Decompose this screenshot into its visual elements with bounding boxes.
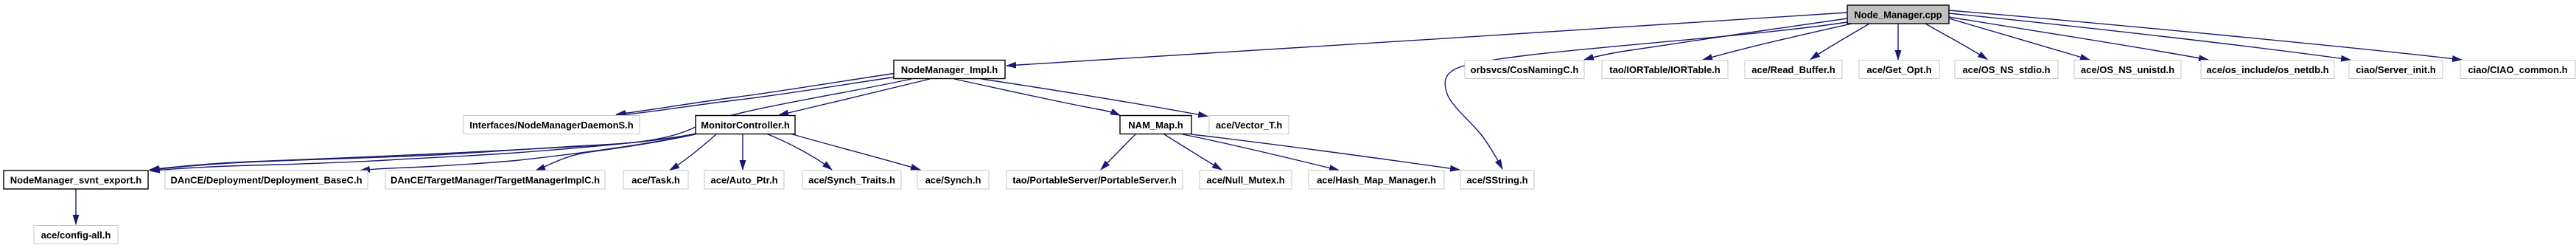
svg-text:tao/IORTable/IORTable.h: tao/IORTable/IORTable.h: [1609, 64, 1721, 75]
wire MonitorController.h to ace/Task.h: [670, 134, 717, 170]
wire NodeManager_Impl.h to MonitorController.h: [779, 79, 930, 115]
node ace/Auto_Ptr.h: [704, 170, 784, 189]
node ace/Task.h: [623, 170, 688, 189]
node ace/Null_Mutex.h: [1200, 170, 1292, 189]
svg-text:ace/OS_NS_unistd.h: ace/OS_NS_unistd.h: [2081, 64, 2174, 75]
wire NodeManager_Impl.h to Interfaces/NodeManagerDaemonS.h (lower): [617, 77, 894, 116]
svg-text:ciao/Server_init.h: ciao/Server_init.h: [2356, 64, 2435, 75]
svg-text:ace/Null_Mutex.h: ace/Null_Mutex.h: [1206, 175, 1284, 186]
wire MonitorController.h to DAnCE/TargetManager/TargetManagerImplC.h: [536, 134, 696, 170]
node tao/PortableServer/PortableServer.h: [1007, 170, 1183, 189]
node tao/IORTable/IORTable.h: [1602, 61, 1728, 79]
svg-text:NodeManager_Impl.h: NodeManager_Impl.h: [901, 64, 998, 75]
svg-text:tao/PortableServer/PortableSer: tao/PortableServer/PortableServer.h: [1012, 175, 1177, 186]
node orbsvcs/CosNamingC.h: [1465, 61, 1584, 79]
node ciao/CIAO_common.h: [2460, 61, 2575, 79]
wire Node_Manager.cpp to ace/SString.h (long curve): [1445, 22, 1847, 169]
svg-text:ace/Auto_Ptr.h: ace/Auto_Ptr.h: [710, 175, 777, 186]
svg-text:ace/Hash_Map_Manager.h: ace/Hash_Map_Manager.h: [1317, 175, 1436, 186]
wire Node_Manager.cpp to ace/os_include/os_netdb.h: [1949, 17, 2208, 60]
svg-text:NAM_Map.h: NAM_Map.h: [1128, 120, 1183, 131]
wire Node_Manager.cpp to orbsvcs/CosNamingC.h: [1584, 18, 1847, 60]
svg-text:ace/Synch_Traits.h: ace/Synch_Traits.h: [808, 175, 895, 186]
wire NAM_Map.h to ace/Null_Mutex.h: [1164, 134, 1222, 170]
wire Node_Manager.cpp to ciao/CIAO_common.h: [1949, 10, 2462, 60]
svg-text:ace/Task.h: ace/Task.h: [631, 175, 680, 186]
wire MonitorController.h to NodeManager_svnt_export.h (second): [150, 134, 696, 171]
node DAnCE/TargetManager/TargetManagerImplC.h: [385, 170, 605, 189]
node ace/Vector_T.h: [1209, 116, 1289, 134]
node ace/OS_NS_unistd.h: [2074, 61, 2181, 79]
wire Node_Manager.cpp to ciao/Server_init.h: [1949, 13, 2351, 60]
wire NodeManager_Impl.h to NAM_Map.h: [954, 79, 1120, 115]
svg-text:MonitorController.h: MonitorController.h: [701, 120, 790, 131]
wire Node_Manager.cpp to ace/OS_NS_unistd.h: [1949, 18, 2090, 60]
wire NodeManager_svnt_export.h to ace/config-all.h: [75, 189, 77, 224]
wire MonitorController.h to ace/Auto_Ptr.h: [742, 134, 743, 170]
svg-text:ace/SString.h: ace/SString.h: [1466, 175, 1527, 186]
node ace/OS_NS_stdio.h: [1955, 61, 2058, 79]
svg-text:ace/os_include/os_netdb.h: ace/os_include/os_netdb.h: [2206, 64, 2328, 75]
node NodeManager_svnt_export.h: [4, 170, 148, 189]
node ace/Read_Buffer.h: [1745, 61, 1842, 79]
wire Node_Manager.cpp to NodeManager_Impl.h: [1007, 13, 1847, 66]
node ciao/Server_init.h: [2349, 61, 2443, 79]
node Node_Manager.cpp (root): [1847, 5, 1949, 24]
node ace/Hash_Map_Manager.h: [1309, 170, 1444, 189]
svg-text:Node_Manager.cpp: Node_Manager.cpp: [1854, 10, 1942, 21]
svg-text:ciao/CIAO_common.h: ciao/CIAO_common.h: [2468, 64, 2567, 75]
node ace/os_include/os_netdb.h: [2201, 61, 2334, 79]
node ace/config-all.h: [34, 226, 118, 244]
wire Node_Manager.cpp to ace/OS_NS_stdio.h: [1925, 24, 1987, 60]
node MonitorController.h: [696, 116, 795, 134]
svg-text:ace/Vector_T.h: ace/Vector_T.h: [1216, 120, 1282, 131]
svg-text:ace/Synch.h: ace/Synch.h: [925, 175, 981, 186]
node ace/Get_Opt.h: [1859, 61, 1939, 79]
svg-text:NodeManager_svnt_export.h: NodeManager_svnt_export.h: [10, 175, 141, 186]
svg-text:ace/Get_Opt.h: ace/Get_Opt.h: [1866, 64, 1931, 75]
wire NAM_Map.h to tao/PortableServer/PortableServer.h: [1101, 134, 1135, 170]
node ace/Synch_Traits.h: [802, 170, 901, 189]
svg-text:Interfaces/NodeManagerDaemonS.: Interfaces/NodeManagerDaemonS.h: [469, 120, 634, 131]
wire MonitorController.h to DAnCE/Deployment/Deployment_BaseC.h: [360, 134, 696, 170]
wire NodeManager_Impl.h to Interfaces/NodeManagerDaemonS.h (upper): [616, 74, 894, 115]
svg-text:DAnCE/TargetManager/TargetMana: DAnCE/TargetManager/TargetManagerImplC.h: [391, 175, 600, 186]
svg-text:ace/config-all.h: ace/config-all.h: [41, 230, 111, 241]
node ace/Synch.h: [917, 170, 989, 189]
svg-text:ace/Read_Buffer.h: ace/Read_Buffer.h: [1751, 64, 1835, 75]
node Interfaces/NodeManagerDaemonS.h: [463, 116, 640, 134]
wire NodeManager_Impl.h to ace/Vector_T.h: [981, 79, 1208, 117]
wire Node_Manager.cpp to ace/Get_Opt.h: [1897, 24, 1899, 60]
node NodeManager_Impl.h: [894, 61, 1005, 79]
wire NodeManager_Impl.h to NodeManager_svnt_export.h: [150, 79, 911, 170]
wire NAM_Map.h to ace/Hash_Map_Manager.h: [1183, 134, 1339, 170]
wire MonitorController.h to ace/Synch.h: [790, 134, 920, 170]
wire MonitorController.h to ace/Synch_Traits.h: [766, 134, 832, 170]
svg-text:orbsvcs/CosNamingC.h: orbsvcs/CosNamingC.h: [1471, 64, 1579, 75]
wire Node_Manager.cpp to tao/IORTable/IORTable.h: [1703, 24, 1852, 60]
node DAnCE/Deployment/Deployment_BaseC.h: [165, 170, 368, 189]
wire MonitorController.h to NodeManager_svnt_export.h: [150, 134, 696, 170]
svg-text:DAnCE/Deployment/Deployment_Ba: DAnCE/Deployment/Deployment_BaseC.h: [170, 175, 362, 186]
svg-text:ace/OS_NS_stdio.h: ace/OS_NS_stdio.h: [1962, 64, 2050, 75]
wire NAM_Map.h to ace/SString.h: [1191, 134, 1460, 170]
node NAM_Map.h: [1120, 116, 1191, 134]
wire Node_Manager.cpp to ace/Read_Buffer.h: [1810, 24, 1869, 60]
node ace/SString.h: [1460, 170, 1534, 189]
